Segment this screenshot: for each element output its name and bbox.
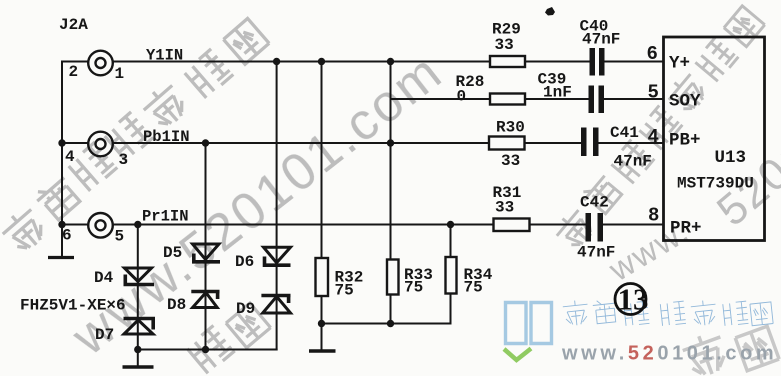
svg-text:47nF: 47nF [582, 31, 620, 49]
svg-text:D9: D9 [236, 300, 255, 318]
svg-text:4: 4 [648, 126, 659, 148]
svg-text:U13: U13 [715, 148, 747, 168]
svg-text:0: 0 [457, 88, 467, 106]
svg-text:D4: D4 [94, 269, 114, 287]
svg-text:1: 1 [115, 65, 125, 83]
svg-text:6: 6 [647, 43, 658, 65]
svg-text:D7: D7 [95, 326, 114, 344]
svg-text:Pr1IN: Pr1IN [142, 208, 189, 226]
svg-text:D8: D8 [167, 296, 186, 314]
svg-text:SOY: SOY [669, 92, 701, 112]
svg-text:FHZ5V1-XE×6: FHZ5V1-XE×6 [20, 297, 126, 315]
svg-text:www.520101.com: www.520101.com [61, 42, 454, 367]
svg-text:www.520101.com: www.520101.com [561, 343, 777, 365]
svg-text:Y1IN: Y1IN [146, 47, 183, 65]
svg-text:4: 4 [65, 148, 75, 166]
svg-text:C42: C42 [580, 194, 609, 212]
svg-text:75: 75 [404, 279, 423, 297]
svg-text:33: 33 [495, 36, 514, 54]
svg-text:33: 33 [501, 152, 520, 170]
svg-text:D5: D5 [163, 244, 182, 262]
svg-text:8: 8 [648, 205, 659, 227]
svg-text:2: 2 [69, 63, 79, 81]
svg-text:13: 13 [618, 282, 649, 317]
svg-text:47nF: 47nF [614, 153, 652, 171]
svg-text:PR+: PR+ [670, 219, 702, 239]
svg-text:47nF: 47nF [577, 244, 615, 262]
svg-text:33: 33 [495, 199, 514, 217]
svg-text:5: 5 [648, 82, 659, 104]
svg-text:C41: C41 [610, 124, 639, 142]
svg-text:PB+: PB+ [669, 131, 701, 151]
svg-text:6: 6 [62, 227, 72, 245]
svg-text:Pb1IN: Pb1IN [143, 128, 190, 146]
svg-text:Y+: Y+ [669, 54, 690, 74]
svg-text:75: 75 [464, 279, 483, 297]
svg-text:R30: R30 [496, 119, 525, 137]
svg-text:5: 5 [115, 228, 125, 246]
svg-text:MST739DU: MST739DU [677, 175, 754, 193]
svg-text:J2A: J2A [59, 16, 88, 34]
svg-text:1nF: 1nF [543, 84, 572, 102]
svg-text:75: 75 [335, 282, 354, 300]
svg-text:D6: D6 [235, 253, 254, 271]
svg-text:3: 3 [119, 151, 129, 169]
